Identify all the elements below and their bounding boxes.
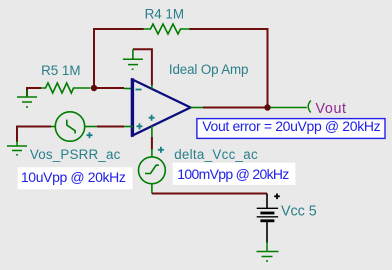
svg-text:R4 1M: R4 1M <box>145 6 184 21</box>
svg-text:Vcc 5: Vcc 5 <box>281 203 317 219</box>
source delta_Vcc_ac <box>139 157 166 184</box>
svg-text:Vout: Vout <box>316 101 347 117</box>
value box 10uVpp <box>18 167 133 189</box>
node junction at output <box>264 104 270 110</box>
resistor R4 <box>143 24 190 34</box>
wire: feedback top-left horizontal <box>94 29 144 88</box>
plus mark of Vos source <box>87 132 93 138</box>
wire: Vos left to ground <box>17 127 51 143</box>
op-amp plus mark (non-inverting) <box>137 123 143 129</box>
wire: V- supply to ground above op-amp <box>133 49 152 85</box>
pin stub: delta_Vcc_ac top lead <box>151 149 153 157</box>
ground below battery <box>257 242 279 261</box>
value box 100mVpp <box>173 163 296 185</box>
source Vos_PSRR_ac <box>50 112 98 141</box>
ground at R5 <box>17 90 37 107</box>
ground below Vos source <box>7 141 27 155</box>
wire: delta_Vcc_ac to battery <box>152 193 267 195</box>
svg-text:10uVpp @ 20kHz: 10uVpp @ 20kHz <box>21 169 126 185</box>
svg-text:Vos_PSRR_ac: Vos_PSRR_ac <box>30 147 121 162</box>
tie marker ( <box>308 101 311 113</box>
wire: down to ground above op-amp <box>132 49 134 59</box>
wire: Vos right to op-amp + input <box>97 126 124 128</box>
svg-text:100mVpp @ 20kHz: 100mVpp @ 20kHz <box>177 166 289 182</box>
wire: R5 to ground <box>27 88 41 96</box>
svg-text:delta_Vcc_ac: delta_Vcc_ac <box>174 147 258 162</box>
wire: feedback top-right horizontal <box>189 29 268 108</box>
wire: output to junction <box>203 107 268 109</box>
pin stub: op-amp output <box>191 107 205 109</box>
node junction at inverting input <box>91 85 97 91</box>
pin stub: delta_Vcc_ac bottom lead <box>151 184 153 194</box>
text box Vout error <box>197 118 385 138</box>
wire: junction to Vout tie <box>271 107 307 109</box>
op-amp supply plus mark <box>149 115 155 121</box>
op-amp U1 triangle <box>131 78 191 136</box>
op-amp minus mark <box>136 89 142 91</box>
pin stub: inverting input <box>124 88 133 90</box>
wire: inverting input from junction <box>94 87 124 89</box>
pin stub: V- supply up from triangle <box>151 84 153 89</box>
battery V1 Vcc <box>257 194 278 244</box>
plus mark of delta source <box>158 147 164 153</box>
svg-text:Ideal Op Amp: Ideal Op Amp <box>169 62 249 77</box>
svg-text:Vout error = 20uVpp @ 20kHz: Vout error = 20uVpp @ 20kHz <box>202 118 380 134</box>
pin stub: V+ supply down from triangle <box>151 126 153 138</box>
plus mark of battery <box>274 194 280 200</box>
pin stub: non-inverting input <box>124 126 133 128</box>
resistor R5 <box>41 83 91 93</box>
wire: V+ supply to delta_Vcc_ac <box>151 137 153 150</box>
svg-text:R5 1M: R5 1M <box>41 63 80 78</box>
ground above op-amp <box>123 59 143 69</box>
